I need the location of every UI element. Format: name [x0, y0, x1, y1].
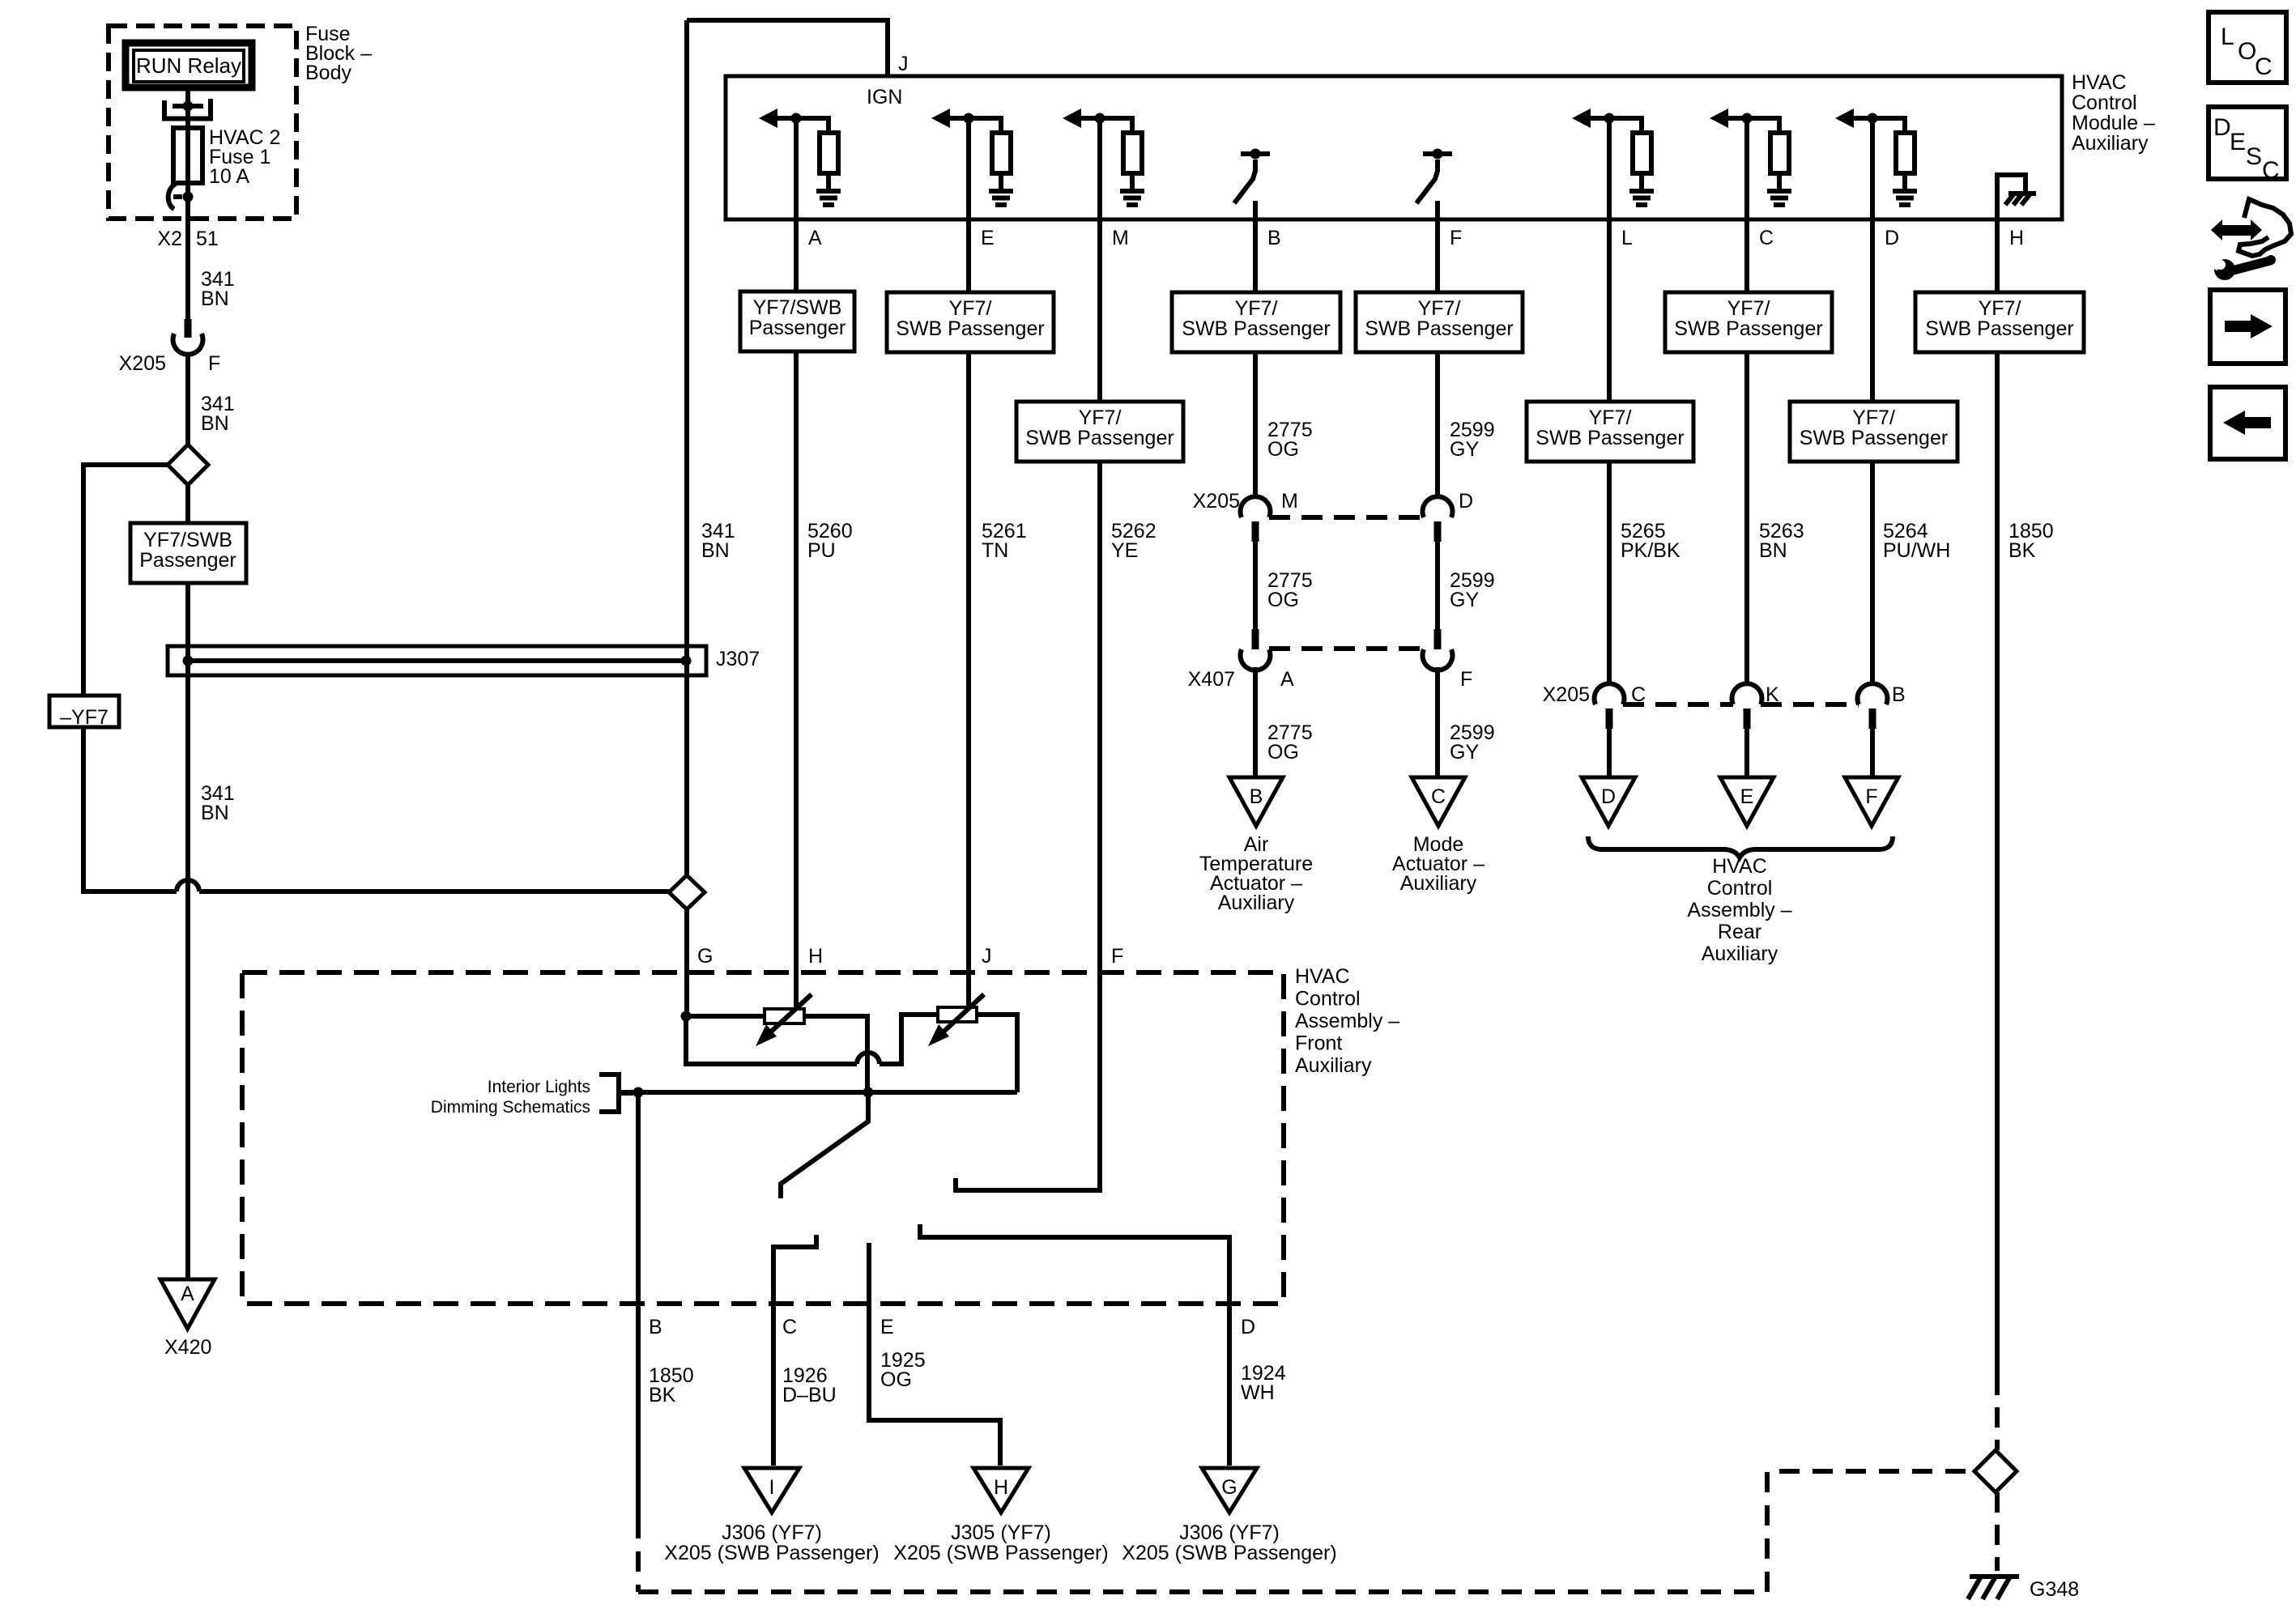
svg-text:YF7/: YF7/: [1589, 406, 1632, 429]
svg-text:Passenger: Passenger: [749, 317, 846, 339]
svg-text:YF7/: YF7/: [1418, 297, 1461, 320]
svg-text:IGN: IGN: [867, 86, 902, 109]
svg-text:F: F: [1460, 668, 1472, 691]
svg-text:HVAC: HVAC: [2072, 71, 2127, 94]
svg-text:A: A: [808, 227, 822, 249]
svg-text:B: B: [1267, 227, 1281, 249]
svg-text:D: D: [1459, 490, 1473, 513]
svg-text:I: I: [769, 1476, 775, 1499]
svg-text:OG: OG: [1267, 589, 1299, 611]
svg-text:O: O: [2238, 38, 2256, 65]
svg-text:SWB Passenger: SWB Passenger: [896, 317, 1044, 340]
svg-text:B: B: [1892, 683, 1906, 706]
svg-text:J305 (YF7): J305 (YF7): [951, 1521, 1051, 1544]
svg-text:SWB Passenger: SWB Passenger: [1182, 317, 1330, 340]
svg-text:H: H: [994, 1476, 1008, 1499]
svg-text:Body: Body: [305, 62, 351, 84]
svg-text:G348: G348: [2030, 1578, 2079, 1601]
svg-text:OG: OG: [880, 1368, 912, 1391]
svg-text:D: D: [2213, 114, 2231, 141]
svg-text:BN: BN: [201, 412, 229, 435]
svg-text:SWB Passenger: SWB Passenger: [1365, 317, 1513, 340]
svg-text:S: S: [2246, 143, 2262, 170]
svg-text:M: M: [1112, 227, 1129, 249]
svg-text:X205: X205: [1193, 490, 1240, 513]
svg-text:C: C: [1431, 785, 1446, 808]
svg-text:D: D: [1241, 1316, 1255, 1338]
svg-text:J: J: [898, 53, 909, 75]
svg-text:Auxiliary: Auxiliary: [1295, 1054, 1372, 1077]
svg-text:F: F: [1865, 785, 1877, 808]
svg-text:BN: BN: [201, 802, 229, 824]
svg-text:C: C: [782, 1316, 797, 1338]
svg-text:A: A: [1280, 668, 1294, 691]
svg-text:YF7/: YF7/: [1852, 406, 1895, 429]
svg-text:F: F: [1450, 227, 1462, 249]
svg-text:Interior Lights: Interior Lights: [488, 1078, 590, 1096]
svg-text:E: E: [1740, 785, 1754, 808]
svg-text:GY: GY: [1450, 741, 1479, 764]
svg-text:L: L: [1621, 227, 1633, 249]
svg-text:YF7/SWB: YF7/SWB: [143, 529, 232, 551]
svg-text:D: D: [1885, 227, 1899, 249]
svg-text:Control: Control: [1295, 988, 1361, 1011]
svg-text:YF7/SWB: YF7/SWB: [753, 296, 842, 319]
svg-text:X205 (SWB Passenger): X205 (SWB Passenger): [1122, 1542, 1336, 1564]
svg-text:X205: X205: [119, 352, 166, 375]
svg-text:OG: OG: [1267, 741, 1299, 764]
svg-text:PU: PU: [807, 539, 836, 562]
svg-text:H: H: [808, 945, 823, 968]
svg-text:C: C: [1759, 227, 1774, 249]
svg-text:J: J: [982, 945, 992, 968]
svg-text:Rear: Rear: [1718, 921, 1761, 943]
svg-text:YF7/: YF7/: [1235, 297, 1278, 320]
svg-text:YF7/: YF7/: [1079, 406, 1122, 429]
svg-text:HVAC: HVAC: [1712, 855, 1767, 878]
svg-text:D–BU: D–BU: [782, 1384, 837, 1406]
svg-text:E: E: [2230, 129, 2246, 155]
svg-text:SWB Passenger: SWB Passenger: [1674, 317, 1822, 340]
svg-text:G: G: [697, 945, 713, 968]
svg-text:X205 (SWB Passenger): X205 (SWB Passenger): [664, 1542, 879, 1564]
svg-text:GY: GY: [1450, 589, 1479, 611]
svg-text:L: L: [2221, 23, 2234, 50]
svg-text:Auxiliary: Auxiliary: [2072, 132, 2149, 155]
svg-text:G: G: [1221, 1476, 1237, 1499]
svg-text:Auxiliary: Auxiliary: [1400, 872, 1477, 895]
svg-text:SWB Passenger: SWB Passenger: [1925, 317, 2073, 340]
svg-text:PU/WH: PU/WH: [1883, 539, 1950, 562]
svg-text:YF7/: YF7/: [1727, 297, 1770, 320]
svg-text:SWB Passenger: SWB Passenger: [1800, 427, 1948, 449]
svg-text:PK/BK: PK/BK: [1621, 539, 1680, 562]
svg-text:B: B: [649, 1316, 662, 1338]
svg-text:Control: Control: [2072, 91, 2137, 114]
svg-text:51: 51: [196, 228, 219, 250]
svg-text:OG: OG: [1267, 438, 1299, 461]
svg-text:Control: Control: [1707, 877, 1773, 900]
svg-text:C: C: [2262, 157, 2280, 184]
svg-text:YF7/: YF7/: [949, 297, 992, 320]
svg-text:WH: WH: [1241, 1381, 1275, 1404]
svg-text:YF7/: YF7/: [1979, 297, 2021, 320]
svg-text:J307: J307: [716, 648, 760, 670]
svg-text:F: F: [208, 352, 220, 375]
svg-text:SWB Passenger: SWB Passenger: [1536, 427, 1684, 449]
svg-text:C: C: [1631, 683, 1646, 706]
svg-text:D: D: [1601, 785, 1616, 808]
svg-text:HVAC: HVAC: [1295, 965, 1350, 988]
svg-text:E: E: [880, 1316, 894, 1338]
svg-text:J306 (YF7): J306 (YF7): [1179, 1521, 1280, 1544]
svg-text:–YF7: –YF7: [60, 706, 109, 729]
svg-text:BN: BN: [201, 287, 229, 310]
svg-text:F: F: [1111, 945, 1123, 968]
svg-text:TN: TN: [982, 539, 1008, 562]
svg-text:BN: BN: [701, 539, 730, 562]
svg-text:H: H: [2009, 227, 2024, 249]
svg-text:B: B: [1250, 785, 1263, 808]
svg-text:X205 (SWB Passenger): X205 (SWB Passenger): [893, 1542, 1108, 1564]
svg-text:Dimming Schematics: Dimming Schematics: [431, 1098, 590, 1117]
svg-text:RUN Relay: RUN Relay: [136, 53, 241, 78]
svg-text:YE: YE: [1111, 539, 1138, 562]
svg-text:X2: X2: [157, 228, 182, 250]
svg-text:BK: BK: [649, 1384, 676, 1406]
svg-text:Module –: Module –: [2072, 112, 2155, 134]
svg-text:Auxiliary: Auxiliary: [1702, 943, 1778, 965]
svg-text:E: E: [981, 227, 995, 249]
svg-text:10 A: 10 A: [209, 165, 249, 188]
svg-text:X205: X205: [1543, 683, 1590, 706]
svg-text:K: K: [1766, 683, 1779, 706]
svg-text:M: M: [1281, 490, 1298, 513]
svg-text:SWB Passenger: SWB Passenger: [1025, 427, 1174, 449]
svg-text:Assembly –: Assembly –: [1687, 899, 1791, 921]
svg-text:Passenger: Passenger: [139, 549, 236, 572]
svg-text:J306 (YF7): J306 (YF7): [722, 1521, 822, 1544]
svg-text:Assembly –: Assembly –: [1295, 1010, 1399, 1032]
svg-text:Front: Front: [1295, 1032, 1342, 1055]
svg-text:Auxiliary: Auxiliary: [1218, 891, 1295, 914]
svg-text:A: A: [181, 1283, 194, 1305]
svg-text:X420: X420: [164, 1336, 211, 1359]
svg-text:C: C: [2255, 53, 2273, 80]
svg-text:BN: BN: [1759, 539, 1787, 562]
svg-text:X407: X407: [1188, 668, 1235, 691]
svg-text:GY: GY: [1450, 438, 1479, 461]
svg-text:BK: BK: [2008, 539, 2036, 562]
